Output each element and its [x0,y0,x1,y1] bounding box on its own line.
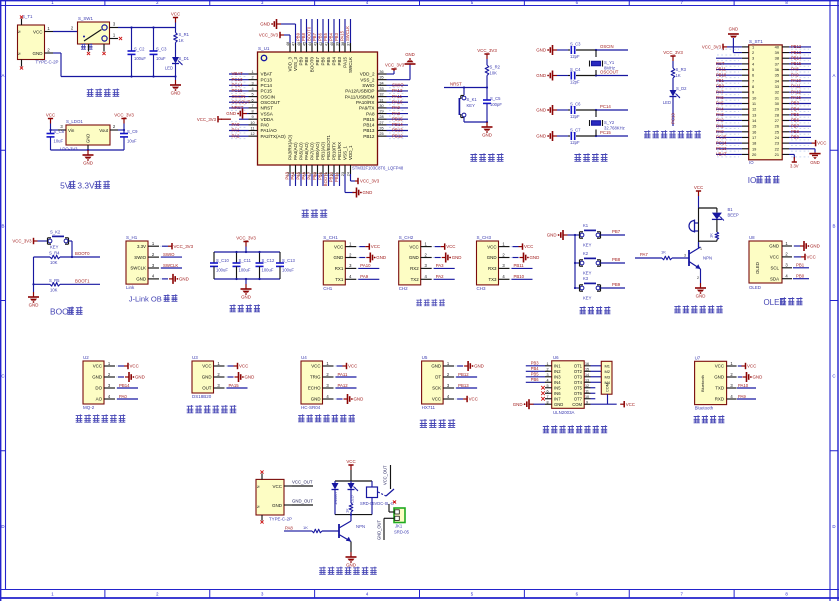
ground boot [33,292,35,297]
svg-text:OUT: OUT [202,386,212,391]
svg-text:PA6(AO): PA6(AO) [304,142,309,160]
svg-text:Vout: Vout [99,128,109,133]
svg-text:GND: GND [714,375,724,380]
svg-text:KEY: KEY [583,271,592,276]
svg-text:GND: GND [536,134,546,139]
ic U6 ULN2003A [545,355,591,415]
title smoke module [76,414,83,422]
svg-text:37: 37 [346,42,350,46]
svg-text:GND: GND [513,402,523,407]
svg-text:S_K1: S_K1 [467,97,478,102]
svg-text:VCC: VCC [334,244,343,249]
svg-text:GND_OUT: GND_OUT [292,499,313,504]
svg-text:IO: IO [749,160,754,165]
svg-text:BOOT1: BOOT1 [75,278,90,283]
svg-text:1K: 1K [345,508,350,513]
svg-text:S_CH2: S_CH2 [399,235,414,240]
svg-text:LED: LED [165,66,173,71]
svg-text:S_C3: S_C3 [570,42,581,47]
svg-text:OSCIN: OSCIN [600,44,614,49]
connector U4 [301,355,363,410]
svg-text:PA4(AO): PA4(AO) [293,142,298,160]
svg-text:VCC: VCC [694,185,703,190]
svg-text:PA11/USB/DM: PA11/USB/DM [345,94,375,99]
svg-text:B: B [2,223,5,228]
svg-text:VCC_OUT: VCC_OUT [383,465,388,485]
svg-text:IN2: IN2 [554,369,561,374]
svg-text:VSS_2: VSS_2 [360,77,375,82]
resistor 1K base [635,250,689,260]
svg-text:IN6: IN6 [554,391,561,396]
svg-text:47: 47 [291,42,295,46]
svg-text:35: 35 [379,76,383,80]
svg-text:PA15: PA15 [229,383,240,388]
svg-text:IN4: IN4 [554,380,561,385]
svg-text:TYPE-C-2P: TYPE-C-2P [36,60,59,65]
svg-text:PB11: PB11 [514,263,525,268]
svg-text:VCC: VCC [371,244,380,249]
svg-text:VBAT: VBAT [261,72,273,77]
svg-text:GND: GND [171,91,181,96]
svg-text:100uF: 100uF [216,268,228,273]
svg-text:23: 23 [775,141,779,146]
junction dots [130,26,132,28]
svg-text:S_C6: S_C6 [570,102,581,107]
svg-text:10K: 10K [50,287,58,292]
svg-text:VCC: VCC [626,402,635,407]
connector U5 [422,355,484,410]
svg-text:PC14: PC14 [600,104,611,109]
svg-text:PA6: PA6 [301,171,306,179]
svg-text:CH1: CH1 [323,286,332,291]
svg-text:12pF: 12pF [570,54,580,59]
no-ERC T2 shell [260,470,263,473]
svg-text:GND: GND [92,375,102,380]
svg-text:8MHz: 8MHz [604,66,615,71]
svg-text:PB9: PB9 [612,282,621,287]
svg-text:GND: GND [810,244,820,249]
svg-text:NPN: NPN [356,524,365,529]
svg-text:M3: M3 [604,374,610,379]
svg-text:12pF: 12pF [570,80,580,85]
svg-text:PB4: PB4 [332,57,337,66]
svg-text:24: 24 [346,172,350,176]
resistor relay branch [345,503,353,515]
ground reset [486,122,488,127]
svg-text:12pF: 12pF [570,140,580,145]
svg-text:23: 23 [341,172,345,176]
svg-text:21: 21 [775,152,779,157]
svg-text:PB14: PB14 [363,123,375,128]
svg-text:25: 25 [379,132,383,136]
svg-text:PA3/RX(AO): PA3/RX(AO) [288,134,293,160]
svg-text:VCC: VCC [807,255,816,260]
svg-text:PB9: PB9 [295,32,300,41]
stepper outputs to motor connector [591,365,602,367]
svg-text:PA4: PA4 [716,106,724,111]
svg-text:PB15: PB15 [363,117,375,122]
svg-text:31: 31 [775,95,779,100]
mcu VSS_2 to GND [387,79,411,81]
svg-text:GND: GND [536,108,546,113]
svg-text:SWIO: SWIO [163,252,175,257]
capacitor S_C2 100uF [128,28,147,77]
svg-text:SWIO: SWIO [134,255,146,260]
svg-text:18: 18 [752,141,756,146]
svg-text:GND: GND [346,563,356,568]
svg-text:PA10: PA10 [392,99,403,104]
svg-text:GND: GND [33,51,44,56]
svg-text:U2: U2 [83,355,89,360]
svg-text:JK1: JK1 [395,524,403,529]
svg-text:44: 44 [308,42,312,46]
svg-text:PC15: PC15 [232,88,244,93]
title ultrasonic module [298,414,304,422]
svg-text:PC15: PC15 [261,89,273,94]
svg-text:VCC_3V3: VCC_3V3 [259,33,279,38]
svg-text:PA15: PA15 [791,95,802,100]
svg-text:GND_OUT: GND_OUT [377,519,382,540]
svg-text:22: 22 [775,146,779,151]
svg-text:PA12: PA12 [791,89,802,94]
svg-text:S_Y1: S_Y1 [604,60,615,65]
svg-text:PA2/TX(AO): PA2/TX(AO) [261,134,287,139]
ground alarm [700,283,702,288]
title key circuit [580,306,586,314]
svg-text:VCC: VCC [469,397,478,402]
svg-text:S_D2: S_D2 [676,86,687,91]
svg-text:PB7: PB7 [315,57,320,66]
capacitor S_C11 100uF [233,252,252,279]
svg-text:DT: DT [435,375,441,380]
relay coil SRD-05VDC-SL-C [360,481,394,515]
ground GND below LED [175,80,177,85]
wire filter top rail [214,251,280,253]
svg-text:VDD_2: VDD_2 [360,72,375,77]
svg-text:PB14: PB14 [119,383,130,388]
svg-text:OT6: OT6 [574,391,583,396]
title temperature module [187,405,194,413]
mcu VDD_1 to VCC_3V3 bottom [350,174,352,181]
svg-text:4: 4 [546,378,548,382]
title crystal circuit [574,153,581,161]
connector S_H1 [126,235,194,290]
no-ERC marks on T1 shell pins [20,15,23,18]
LED B1 BEEP [712,207,739,232]
svg-text:U5: U5 [422,355,428,360]
svg-text:S_R5: S_R5 [49,278,60,283]
svg-text:GND: GND [487,255,497,260]
svg-text:PA3: PA3 [716,112,724,117]
svg-text:OT3: OT3 [574,374,583,379]
svg-text:PB8: PB8 [304,57,309,66]
svg-text:2: 2 [251,76,253,80]
title reset circuit [470,153,477,161]
svg-text:GND: GND [311,397,321,402]
capacitor S_C4 12pF [536,67,628,85]
capacitor S_C8 10uF [47,129,65,150]
buzzer [689,208,699,247]
svg-text:17: 17 [752,135,756,140]
svg-text:1K: 1K [709,233,714,238]
svg-text:PB11/RX: PB11/RX [337,142,342,160]
svg-text:SCL: SCL [770,266,779,271]
svg-text:VCC: VCC [239,364,248,369]
svg-text:PB0: PB0 [312,171,317,180]
title main chip [302,209,309,217]
wire relay top rail [335,480,372,482]
svg-text:VCC: VCC [715,364,724,369]
svg-text:PB4: PB4 [791,106,800,111]
svg-text:TXD: TXD [715,386,724,391]
svg-text:3: 3 [251,81,253,85]
svg-text:BEEP: BEEP [728,213,739,218]
svg-text:11: 11 [585,389,589,393]
svg-text:33: 33 [379,87,383,91]
no-ERC marks on switch [119,37,122,40]
net label NRST wire [444,87,487,89]
svg-text:PC15: PC15 [600,130,611,135]
svg-text:PB7: PB7 [612,229,621,234]
svg-text:S_LDO1: S_LDO1 [66,119,83,124]
svg-text:ULN2003A: ULN2003A [553,410,575,415]
svg-text:GND: GND [260,22,270,27]
svg-text:NRST: NRST [261,106,274,111]
svg-text:BOOT0: BOOT0 [306,26,311,41]
svg-text:PB0: PB0 [716,84,725,89]
crystal S_Y2 32.768KHz [590,110,625,136]
svg-text:SWCLK: SWCLK [130,266,146,271]
capacitor S_C5 100pF [483,88,502,123]
svg-text:U8: U8 [749,235,755,240]
svg-text:M2: M2 [604,369,610,374]
svg-text:Bluetooth: Bluetooth [695,406,714,411]
svg-text:PC13: PC13 [716,146,727,151]
svg-text:GND: GND [409,255,419,260]
connector U7 Bluetooth [695,356,763,411]
svg-text:S_C3: S_C3 [156,47,167,52]
svg-text:3: 3 [546,373,548,377]
mcu ground at VSSA pin [247,113,249,115]
svg-text:SWIO: SWIO [392,83,404,88]
svg-text:RST: RST [716,61,725,66]
svg-text:U7: U7 [695,356,701,361]
svg-text:PA8: PA8 [791,67,799,72]
svg-text:VCC_3V3: VCC_3V3 [385,63,405,68]
svg-text:PB14: PB14 [791,55,802,60]
svg-text:U3: U3 [192,355,198,360]
svg-text:SCK: SCK [432,386,441,391]
svg-text:10uF: 10uF [54,139,64,144]
svg-text:8: 8 [546,400,548,404]
svg-text:PB6: PB6 [531,377,539,382]
svg-text:PC13: PC13 [232,77,244,82]
svg-text:36: 36 [379,70,383,74]
svg-text:VCC: VCC [432,397,441,402]
svg-text:PC14: PC14 [716,140,727,145]
svg-text:S_C12: S_C12 [262,258,275,263]
svg-text:PC13: PC13 [671,113,676,124]
svg-text:COM: COM [606,383,610,392]
wire filter bottom rail [214,278,280,280]
svg-text:GND: GND [810,160,820,165]
wire T1 VCC to switch [56,31,74,33]
svg-text:9: 9 [251,115,253,119]
svg-text:3: 3 [684,253,686,257]
svg-text:13: 13 [585,378,589,382]
svg-text:PB11: PB11 [716,67,727,72]
wire reset bottom [464,121,487,123]
svg-text:10: 10 [585,395,589,399]
svg-text:RX2: RX2 [410,266,419,271]
svg-text:B: B [833,223,836,228]
ground below LDO [87,150,89,155]
svg-text:GND: GND [536,73,546,78]
mcu U1 left pins [229,70,286,139]
svg-text:13: 13 [752,112,756,117]
svg-text:S_C4: S_C4 [570,67,581,72]
svg-text:GND: GND [729,27,739,32]
svg-text:SWCLK: SWCLK [348,57,353,73]
svg-text:PB0: PB0 [796,274,805,279]
mcu VDD_2 to VCC_3V3 [387,73,395,75]
svg-text:PC15: PC15 [716,135,727,140]
svg-text:PB5: PB5 [791,112,800,117]
svg-text:GND: GND [405,52,415,57]
svg-text:GND: GND [245,375,255,380]
green connector JK1 SRD-05 [377,504,410,540]
svg-text:PB12: PB12 [791,44,802,49]
capacitor S_C7 12pF [536,128,628,146]
svg-text:PA10: PA10 [791,78,802,83]
svg-text:15: 15 [752,124,756,129]
svg-text:PB14: PB14 [392,122,403,127]
svg-text:BOOT0: BOOT0 [310,57,315,73]
svg-text:3.3V: 3.3V [790,164,799,169]
svg-text:RX3: RX3 [488,266,497,271]
svg-text:19: 19 [752,146,756,151]
svg-text:GND: GND [334,255,344,260]
switch S_SW1 [78,16,119,52]
svg-text:PA0: PA0 [232,122,241,127]
svg-text:S_R2: S_R2 [490,65,501,70]
svg-text:SWCLK: SWCLK [345,26,350,41]
svg-text:PB9: PB9 [299,57,304,66]
resistor S_R5 10K [34,278,101,293]
svg-text:GND: GND [376,255,386,260]
no-ERC on IN5-IN7 [541,386,545,390]
svg-text:S_CH1: S_CH1 [323,235,338,240]
svg-text:RXD: RXD [715,397,724,402]
svg-text:GND: GND [202,375,212,380]
svg-text:GND: GND [29,303,39,308]
connector T1 TYPE-C-2P [18,14,59,67]
svg-text:10uF: 10uF [127,139,137,144]
svg-text:VCC: VCC [348,364,357,369]
svg-text:K3: K3 [583,276,589,281]
svg-text:PB10: PB10 [514,274,525,279]
svg-text:VCC: VCC [93,364,102,369]
svg-text:SDA: SDA [770,276,779,281]
svg-text:12: 12 [585,384,589,388]
svg-text:COM: COM [572,402,582,407]
resistor S_R4 10K [34,251,101,266]
svg-text:S_C10: S_C10 [216,258,229,263]
connector S_CH1 [323,235,386,291]
regulator S_LDO1 [58,119,118,152]
power VCC top of R1 [173,17,178,19]
svg-text:VCC_OUT: VCC_OUT [292,480,313,485]
svg-text:29: 29 [379,110,383,114]
svg-text:PB13: PB13 [392,128,403,133]
LED relay [348,481,359,503]
connector S_ST1 IO header [716,39,826,169]
power VCC alarm [696,190,701,192]
svg-text:U6: U6 [553,355,559,360]
svg-text:A: A [2,73,5,78]
svg-text:PB0(AO): PB0(AO) [315,141,320,160]
svg-text:OSCOUT: OSCOUT [232,99,251,104]
svg-text:7: 7 [546,395,548,399]
svg-text:PA10: PA10 [360,263,371,268]
svg-text:OT5: OT5 [574,385,583,390]
svg-text:29: 29 [775,107,779,112]
connector U8 OLED [749,235,820,290]
svg-text:PB5: PB5 [323,32,328,41]
svg-text:PA7: PA7 [306,171,311,179]
svg-text:U4: U4 [301,355,307,360]
power VCC_3V3 filter [243,241,248,243]
svg-text:OSCIN: OSCIN [261,94,276,99]
svg-text:VCC: VCC [33,29,43,34]
svg-text:PB12: PB12 [392,133,403,138]
svg-text:PA12/USB/DP: PA12/USB/DP [345,89,374,94]
svg-text:PB3: PB3 [791,101,800,106]
svg-text:OT1: OT1 [574,363,583,368]
title filter circuit [230,304,236,311]
capacitor S_C3 10uF [150,28,168,77]
svg-text:10uF: 10uF [156,56,166,61]
power VCC_3V3 reset [484,53,489,55]
svg-text:PA4: PA4 [290,171,295,179]
svg-text:PA15: PA15 [343,57,348,68]
svg-text:GND: GND [530,255,540,260]
svg-text:VDD_3: VDD_3 [288,57,293,72]
svg-text:4: 4 [251,87,253,91]
svg-text:VCC_3V3: VCC_3V3 [663,50,683,55]
svg-text:PA2: PA2 [716,118,724,123]
svg-text:S_K2: S_K2 [50,230,61,235]
svg-text:SWIO: SWIO [362,83,375,88]
svg-text:PB7: PB7 [791,123,800,128]
svg-text:32: 32 [379,93,383,97]
svg-text:40: 40 [330,42,334,46]
svg-text:SRD-05: SRD-05 [394,530,410,535]
svg-text:S_CH3: S_CH3 [477,235,492,240]
svg-text:VCC_3V3: VCC_3V3 [174,244,194,249]
svg-text:IO: IO [748,176,757,185]
svg-text:8: 8 [752,84,754,89]
wire key bus vertical [574,235,576,288]
svg-text:11: 11 [752,101,756,106]
svg-text:PA10/RX: PA10/RX [356,100,375,105]
svg-text:32.768KHz: 32.768KHz [604,126,625,131]
svg-text:D: D [1,524,4,529]
svg-text:39: 39 [775,50,779,55]
svg-text:PB13: PB13 [458,383,469,388]
svg-text:34: 34 [379,81,383,85]
svg-text:ECHO: ECHO [308,386,321,391]
